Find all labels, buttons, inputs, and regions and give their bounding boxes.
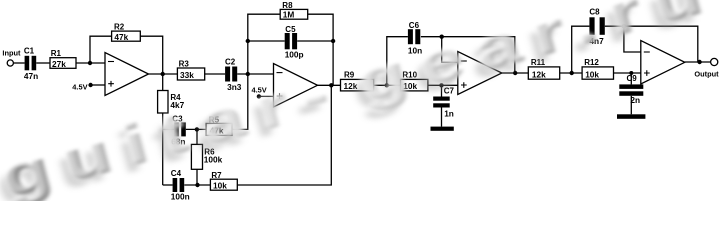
wire C4 line xyxy=(163,184,173,186)
wire 4.5V to U2 non-inverting input xyxy=(259,95,274,97)
resistor R10 xyxy=(400,70,428,91)
ground at C9 xyxy=(617,114,645,119)
svg-text:100p: 100p xyxy=(285,50,304,60)
svg-text:Output: Output xyxy=(694,69,719,78)
node H junction (C9 tap) xyxy=(629,71,633,75)
node D junction (C2/U2 inverting) xyxy=(246,72,250,76)
wire C6 right to U3 output xyxy=(421,37,515,73)
capacitor C2 xyxy=(225,57,242,92)
svg-text:C9: C9 xyxy=(627,74,638,83)
wire C5 left xyxy=(248,40,285,42)
node A junction xyxy=(88,61,92,65)
wire R11 to R12 xyxy=(560,72,582,74)
wire 4.5V to U1 non-inverting input xyxy=(91,84,105,86)
wire node C down through R6 xyxy=(196,129,198,144)
svg-text:R2: R2 xyxy=(114,22,125,31)
node B junction (U1 output) xyxy=(161,72,165,76)
capacitor C9 xyxy=(619,74,643,105)
junction C8 to U4 inverting xyxy=(622,24,626,28)
wire R3 to C2 xyxy=(205,73,225,75)
wire C9 to ground xyxy=(630,96,632,115)
svg-text:C2: C2 xyxy=(225,57,236,66)
wire C5 right xyxy=(297,40,333,42)
resistor R2 xyxy=(112,22,141,42)
wire node A up to R2 xyxy=(90,36,112,63)
resistor R7 xyxy=(210,171,237,191)
wire C8 node down to U4 inverting input xyxy=(624,26,641,52)
op-amp U3 xyxy=(458,52,502,95)
svg-text:1n: 1n xyxy=(444,109,454,119)
svg-text:4.5V: 4.5V xyxy=(72,82,87,91)
wire R1 to op-amp U1 inverting input xyxy=(76,62,105,64)
wire C1 to R1 xyxy=(36,62,50,64)
output terminal xyxy=(711,58,718,65)
4.5V supply at U2 xyxy=(252,86,267,99)
wire U4 output to output terminal xyxy=(685,61,711,63)
node F junction (C7 tap) xyxy=(439,83,443,87)
svg-text:100n: 100n xyxy=(171,192,190,202)
wire node D up to R8/C5 feedback xyxy=(248,14,280,74)
svg-text:1M: 1M xyxy=(283,10,295,20)
wire R7 to U2 output node riser xyxy=(237,85,331,185)
svg-text:10k: 10k xyxy=(585,69,599,79)
wire R9 to R10 xyxy=(374,84,401,86)
wire R2 to U1 output node xyxy=(140,36,162,74)
wire node F down to C7 xyxy=(441,85,443,96)
wire R10 to op-amp U3 non-inverting input xyxy=(428,84,458,86)
op-amp U4 xyxy=(641,41,685,85)
wire R5 up to node D xyxy=(232,74,248,129)
resistor R3 xyxy=(177,59,204,80)
wire C2 to op-amp U2 inverting input xyxy=(237,73,273,75)
capacitor C1 xyxy=(24,47,38,81)
resistor R1 xyxy=(50,49,76,69)
svg-text:R3: R3 xyxy=(179,59,190,68)
wire R8 right to U2 output xyxy=(308,14,333,85)
svg-text:27k: 27k xyxy=(52,59,66,69)
svg-text:33k: 33k xyxy=(180,70,194,80)
op-amp U2 xyxy=(274,64,318,108)
svg-text:10k: 10k xyxy=(213,181,227,191)
svg-text:47k: 47k xyxy=(114,32,128,42)
junction C5 right xyxy=(331,39,335,43)
node U4 output junction xyxy=(697,60,701,64)
wire U3 output to R11 xyxy=(502,72,529,74)
input terminal xyxy=(7,60,13,66)
svg-text:Input: Input xyxy=(2,48,21,57)
wire C7 to ground xyxy=(441,107,443,126)
wire node G up to C8 xyxy=(572,26,590,73)
svg-text:R1: R1 xyxy=(51,49,62,58)
wire U2 output to R9 xyxy=(318,84,341,86)
resistor R9 xyxy=(341,70,374,91)
wire node H down to C9 xyxy=(630,73,632,84)
wire U1 output to node xyxy=(149,73,178,75)
resistor R8 xyxy=(280,1,308,19)
wire node E up to C6 xyxy=(387,37,408,86)
node G junction (R11/R12/C8) xyxy=(570,71,574,75)
capacitor C4 xyxy=(171,169,190,202)
capacitor C8 xyxy=(589,8,604,46)
svg-text:C1: C1 xyxy=(24,47,35,56)
wire R4 branch to C3 xyxy=(163,128,175,130)
node junction (C4/R6/R7) xyxy=(195,183,199,187)
resistor R6 xyxy=(191,144,222,169)
junction C6 to U3 inverting xyxy=(440,35,444,39)
resistor R5 xyxy=(206,116,232,136)
wire C8 right to U4 output xyxy=(605,26,698,62)
resistor R12 xyxy=(582,58,613,80)
ground at C7 xyxy=(431,127,454,131)
svg-text:C6: C6 xyxy=(409,21,420,30)
svg-text:47n: 47n xyxy=(24,71,38,81)
node U2 output junction xyxy=(329,83,333,87)
junction C5 left xyxy=(246,39,250,43)
svg-text:2n: 2n xyxy=(630,95,640,105)
capacitor C6 xyxy=(408,21,422,55)
wire input to C1 xyxy=(14,62,25,64)
node U3 output junction xyxy=(513,71,517,75)
capacitor C5 xyxy=(285,25,304,60)
op-amp U1 xyxy=(105,53,149,96)
svg-text:C5: C5 xyxy=(285,25,296,34)
node E junction (R9/R10/C6) xyxy=(385,83,389,87)
capacitor C7 xyxy=(433,87,454,119)
wire node B down through R4 branch xyxy=(162,74,164,91)
4.5V supply at U1 xyxy=(72,82,93,91)
wire C3 to node C xyxy=(186,128,206,130)
svg-text:R7: R7 xyxy=(211,171,222,180)
wire C6 node down to U3 inverting input xyxy=(442,37,458,63)
node C junction (C3/R5/R6) xyxy=(195,127,199,131)
resistor R4 xyxy=(158,91,185,114)
capacitor C3 xyxy=(171,114,186,146)
resistor R11 xyxy=(528,58,559,80)
wire R12 to op-amp U4 non-inverting input xyxy=(614,72,641,74)
